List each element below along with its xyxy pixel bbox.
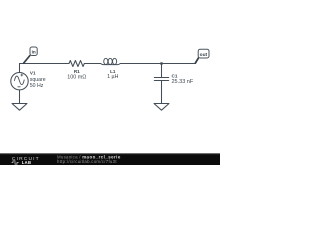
- out flag pointer: [195, 58, 198, 63]
- svg-text:in: in: [32, 50, 36, 55]
- V1 bottom stem: [19, 90, 21, 103]
- svg-text:V1: V1: [30, 71, 36, 76]
- svg-text:R1: R1: [74, 69, 80, 74]
- capacitor C1 plates: [154, 78, 168, 81]
- svg-text:25.33 nF: 25.33 nF: [172, 79, 194, 85]
- voltage source V1 circle: [11, 73, 28, 90]
- CircuitLab logo wave glyph: [12, 161, 19, 164]
- ground under C1: [154, 104, 169, 111]
- capacitor C1 bottom stem: [161, 81, 163, 104]
- out flag box: [198, 49, 209, 58]
- V1 minus sign: [18, 86, 20, 88]
- svg-text:L1: L1: [110, 69, 116, 74]
- V1 sine waveform: [15, 76, 25, 85]
- resistor R1: [69, 61, 84, 67]
- in flag box: [30, 47, 37, 56]
- wire V1 top riser: [19, 64, 21, 73]
- ground under V1: [12, 104, 27, 111]
- inductor L1 loop 2: [108, 58, 112, 64]
- footer bar: [0, 153, 220, 165]
- wire L1 to node A: [120, 63, 161, 65]
- wire from V1 to R1: [20, 63, 70, 65]
- V1 plus sign: [21, 74, 23, 76]
- svg-text:50 Hz: 50 Hz: [30, 83, 44, 89]
- wire node A to out flag: [162, 63, 196, 65]
- svg-text:http://circuitlab.com/c/7fu3t: http://circuitlab.com/c/7fu3t: [57, 159, 117, 164]
- inductor L1 coil baseline: [101, 64, 121, 65]
- svg-text:square: square: [30, 77, 46, 83]
- svg-text:1 µH: 1 µH: [107, 74, 118, 80]
- node A junction dot: [160, 62, 162, 64]
- svg-text:C1: C1: [172, 74, 178, 79]
- inductor L1 loop 3: [113, 58, 117, 64]
- in flag pointer: [24, 56, 30, 64]
- svg-text:100 mΩ: 100 mΩ: [67, 74, 86, 80]
- wire R1 to L1: [84, 63, 100, 65]
- svg-text:out: out: [200, 52, 208, 58]
- svg-text:LAB: LAB: [22, 160, 31, 165]
- inductor L1 loop 1: [104, 58, 108, 64]
- capacitor C1 top stem: [161, 64, 163, 78]
